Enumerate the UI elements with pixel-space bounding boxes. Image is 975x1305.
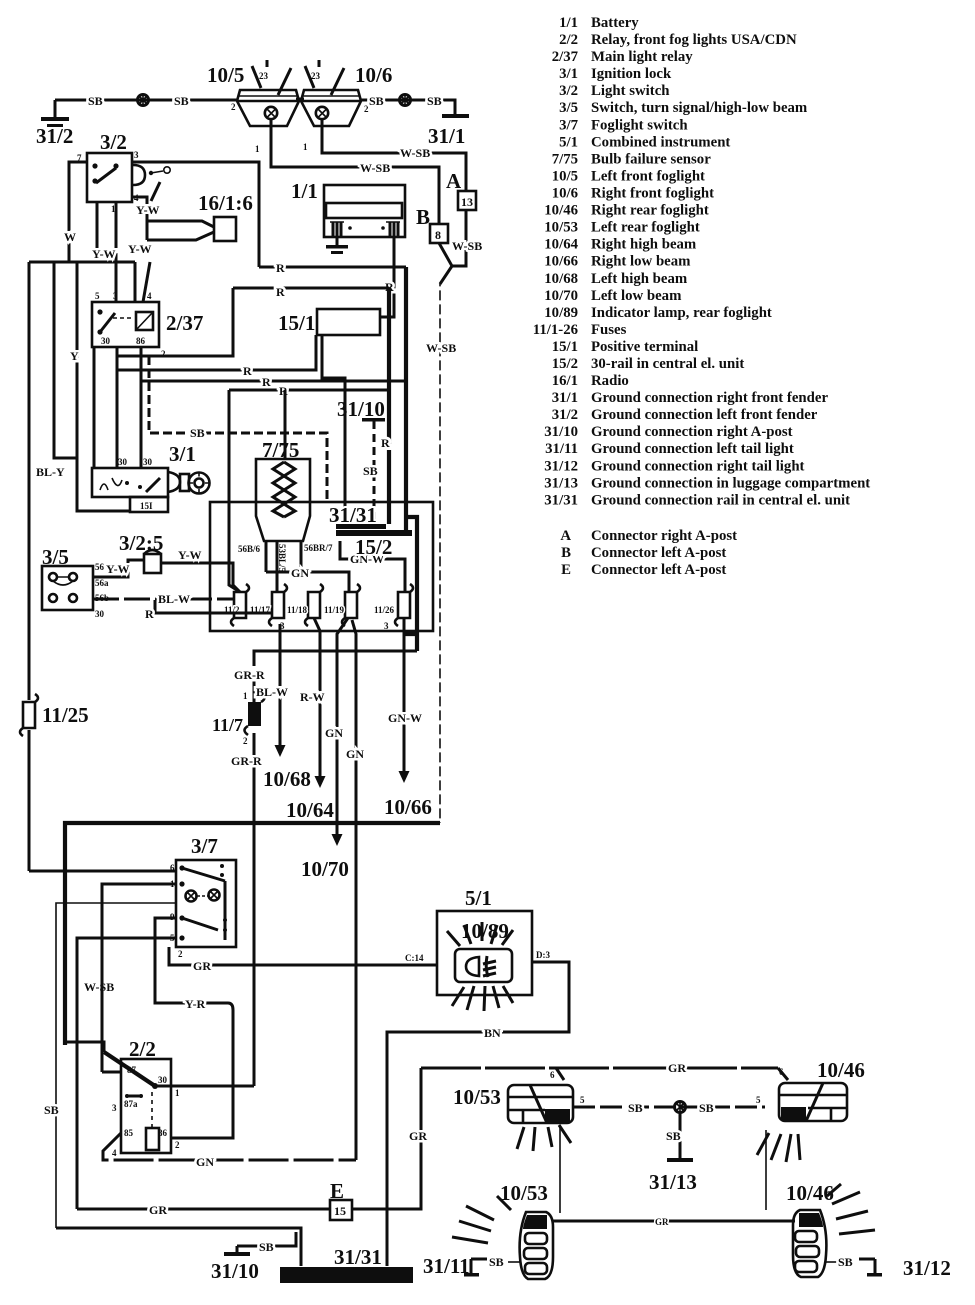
svg-text:Foglight switch: Foglight switch [591, 117, 688, 133]
svg-text:GN: GN [196, 1155, 214, 1169]
svg-text:10/46: 10/46 [817, 1058, 865, 1082]
svg-text:10/53: 10/53 [544, 220, 578, 236]
wire W-SB right vertical [426, 266, 456, 823]
svg-text:1/1: 1/1 [291, 179, 318, 203]
wire link 10/53 to side view [559, 1125, 561, 1213]
wire BL-W arrow 10/68 [256, 624, 311, 791]
svg-text:30: 30 [118, 457, 128, 467]
ground 31/1 [428, 114, 469, 148]
ground 31/13 [649, 1113, 697, 1194]
svg-text:30: 30 [101, 336, 111, 346]
svg-text:SB: SB [628, 1101, 643, 1115]
wire R line y370 [117, 335, 316, 378]
svg-text:31/31: 31/31 [544, 492, 578, 508]
svg-text:3/2: 3/2 [559, 83, 578, 99]
svg-text:5: 5 [756, 1095, 761, 1105]
svg-text:Ignition lock: Ignition lock [591, 66, 672, 82]
svg-text:3/2: 3/2 [100, 130, 127, 154]
svg-text:31/31: 31/31 [334, 1245, 382, 1269]
svg-text:GN: GN [346, 747, 364, 761]
svg-text:W-SB: W-SB [360, 161, 390, 175]
svg-text:31/13: 31/13 [649, 1170, 697, 1194]
svg-text:3: 3 [384, 621, 389, 631]
fuse 11/26 [374, 584, 413, 626]
svg-text:11/19: 11/19 [324, 605, 345, 615]
wire SB dashed y433 [149, 356, 327, 502]
svg-text:10/70: 10/70 [544, 288, 578, 304]
wire D:3 BN [387, 950, 569, 1266]
wire SB dashed to rail [363, 421, 378, 524]
wire 15/1 down to rail [322, 335, 345, 524]
svg-text:31/1: 31/1 [552, 390, 578, 406]
svg-text:GR: GR [668, 1061, 686, 1075]
svg-text:11/18: 11/18 [287, 605, 308, 615]
svg-text:30: 30 [95, 609, 105, 619]
svg-text:GR: GR [655, 1217, 669, 1227]
wire 10/6 pin1 W-SB [322, 119, 466, 191]
wire R line y288 [233, 285, 389, 299]
svg-text:2: 2 [231, 102, 236, 112]
svg-text:11/26: 11/26 [374, 605, 395, 615]
svg-text:W-SB: W-SB [426, 341, 456, 355]
svg-text:2/37: 2/37 [166, 311, 203, 335]
svg-text:5: 5 [580, 1095, 585, 1105]
svg-text:30: 30 [158, 1075, 168, 1085]
svg-text:31/1: 31/1 [428, 124, 465, 148]
ground 31/10 upper [337, 397, 385, 422]
svg-text:10/64: 10/64 [544, 237, 578, 253]
svg-text:Main light relay: Main light relay [591, 49, 693, 65]
svg-text:2: 2 [243, 736, 248, 746]
svg-text:SB: SB [427, 94, 442, 108]
svg-text:3: 3 [112, 1103, 117, 1113]
wire 7/75 pin 56BR/7 [301, 541, 333, 572]
svg-text:Fuses: Fuses [591, 322, 627, 338]
svg-text:Ground connection rail in cent: Ground connection rail in central el. un… [591, 492, 850, 508]
svg-text:10/6: 10/6 [355, 63, 392, 87]
svg-text:10/6: 10/6 [552, 186, 578, 202]
svg-text:Y: Y [70, 349, 79, 363]
wire 7/75 pin 53BL/5 [277, 541, 287, 592]
tail light 10/53 side view [452, 1181, 553, 1279]
svg-text:16/1: 16/1 [552, 373, 578, 389]
svg-text:31/12: 31/12 [544, 458, 578, 474]
svg-text:R: R [381, 436, 390, 450]
ground 31/12 [826, 1255, 951, 1280]
svg-text:10/53: 10/53 [500, 1181, 548, 1205]
wire SB left to bus [56, 1228, 301, 1266]
wire diagonal into 2/37 [143, 262, 150, 302]
splice connector [400, 94, 411, 106]
svg-text:10/66: 10/66 [544, 254, 578, 270]
svg-text:10/68: 10/68 [263, 767, 311, 791]
svg-text:13: 13 [461, 195, 473, 209]
svg-text:Left low beam: Left low beam [591, 288, 682, 304]
wire 2/37 pin86 down to 3/1 [140, 347, 143, 468]
fuse 11/7 [212, 691, 265, 746]
svg-text:Bulb failure sensor: Bulb failure sensor [591, 151, 711, 167]
svg-text:5/1: 5/1 [465, 886, 492, 910]
svg-text:15/2: 15/2 [552, 356, 578, 372]
foglight 10/6 [301, 60, 392, 152]
wire SB between tail lights [573, 1095, 765, 1115]
svg-text:Ground connection right A-post: Ground connection right A-post [591, 424, 793, 440]
svg-text:Left rear foglight: Left rear foglight [591, 220, 700, 236]
wire 2/37 left down to 3/1 [93, 347, 96, 468]
wire W-SB into 2/2 [65, 1042, 104, 1052]
svg-text:A: A [560, 528, 571, 544]
ground 31/11 [423, 1254, 520, 1278]
svg-text:SB: SB [174, 94, 189, 108]
svg-text:Connector right A-post: Connector right A-post [591, 528, 737, 544]
ground rail 31/31 [329, 503, 412, 559]
ground rail 31/31 bus bar [280, 1245, 413, 1283]
svg-text:3: 3 [134, 150, 139, 160]
svg-text:15I: 15I [140, 501, 153, 511]
svg-text:23: 23 [259, 71, 269, 81]
svg-text:GR: GR [409, 1129, 427, 1143]
svg-text:56a: 56a [95, 578, 109, 588]
svg-text:E: E [561, 562, 571, 578]
svg-text:16/1:6: 16/1:6 [198, 191, 253, 215]
legend list [533, 15, 871, 578]
wire to radio lower [147, 232, 214, 240]
wire 2/2 pin85 GN [103, 1133, 356, 1169]
svg-text:Left front foglight: Left front foglight [591, 169, 705, 185]
wire Y-W to 2/37 pin4 [134, 262, 137, 302]
svg-text:15/2: 15/2 [355, 535, 392, 559]
svg-text:GR: GR [193, 959, 211, 973]
radio connector 16/1:6 [198, 191, 253, 241]
splice connector [138, 94, 149, 106]
svg-text:56BR/7: 56BR/7 [304, 543, 333, 553]
svg-text:R-W: R-W [300, 690, 325, 704]
switch 3/5 [42, 545, 109, 619]
svg-text:56: 56 [95, 562, 105, 572]
svg-text:SB: SB [369, 94, 384, 108]
connector E [330, 1179, 352, 1220]
svg-text:15: 15 [334, 1204, 346, 1218]
wire 3/7 pin1 to 2/2 [102, 884, 176, 1072]
svg-text:5: 5 [95, 291, 100, 301]
svg-text:11/1-26: 11/1-26 [533, 322, 578, 338]
svg-text:10/5: 10/5 [552, 169, 578, 185]
svg-text:1: 1 [303, 142, 308, 152]
svg-text:R: R [145, 607, 154, 621]
wire battery plus R [380, 237, 394, 317]
fuse 11/18 [287, 584, 323, 626]
wire SB to ground 31/1 [360, 94, 455, 115]
svg-text:1: 1 [175, 1088, 180, 1098]
svg-text:85: 85 [124, 1128, 134, 1138]
svg-text:Y-R: Y-R [185, 997, 206, 1011]
svg-text:1/1: 1/1 [559, 15, 578, 31]
wire GR upper tail line [421, 1061, 788, 1080]
fuse 11/17 [250, 584, 287, 626]
svg-text:B: B [416, 205, 430, 229]
svg-text:8: 8 [435, 228, 441, 242]
svg-text:Ground connection left front f: Ground connection left front fender [591, 407, 818, 423]
wire SB to left foglight [55, 94, 238, 108]
svg-text:Y-W: Y-W [178, 548, 202, 562]
svg-text:BN: BN [484, 1026, 501, 1040]
connector B [416, 205, 448, 243]
svg-text:Positive terminal: Positive terminal [591, 339, 698, 355]
wire 3/7 pin5 GR [77, 938, 176, 1209]
svg-text:31/10: 31/10 [544, 424, 578, 440]
fuse 11/19 [324, 584, 360, 626]
svg-text:31/2: 31/2 [36, 124, 73, 148]
svg-text:10/68: 10/68 [544, 271, 578, 287]
wire 3/2 pin1b to relay [115, 202, 118, 302]
svg-text:Y-W: Y-W [106, 562, 130, 576]
tail light 10/46 side view [786, 1181, 875, 1277]
svg-text:Combined instrument: Combined instrument [591, 134, 730, 150]
bulb failure sensor 7/75 [256, 438, 310, 541]
wire R vertical x389 [381, 288, 390, 524]
svg-text:3/7: 3/7 [559, 117, 579, 133]
wire 2/37 pin2 [118, 288, 233, 356]
wire Y-W right of 3/2:5 [161, 548, 240, 592]
svg-text:GN: GN [325, 726, 343, 740]
wire R line y381 [141, 375, 406, 389]
svg-text:D:3: D:3 [536, 950, 550, 960]
svg-text:15/1: 15/1 [278, 311, 315, 335]
svg-text:53BL/5: 53BL/5 [277, 544, 287, 573]
battery 1/1 [291, 179, 405, 237]
svg-text:31/31: 31/31 [329, 503, 377, 527]
svg-text:56B/6: 56B/6 [238, 544, 261, 554]
wire 2/2 pin30 to GR-R vertical [155, 1085, 254, 1088]
svg-text:31/13: 31/13 [544, 475, 578, 491]
svg-text:Right high beam: Right high beam [591, 237, 697, 253]
svg-text:Ground connection in luggage c: Ground connection in luggage compartment [591, 475, 870, 491]
svg-text:SB: SB [88, 94, 103, 108]
svg-text:10/5: 10/5 [207, 63, 244, 87]
ground 31/10 lower [211, 1232, 296, 1283]
svg-text:SB: SB [44, 1103, 59, 1117]
svg-text:SB: SB [666, 1129, 681, 1143]
wire 7/75 top feed [284, 390, 287, 459]
svg-text:11/7: 11/7 [212, 715, 243, 735]
svg-text:SB: SB [489, 1255, 504, 1269]
svg-text:3/5: 3/5 [559, 100, 578, 116]
wire GR from E to tail lights [352, 1068, 421, 1209]
svg-text:31/10: 31/10 [337, 397, 385, 421]
svg-text:4: 4 [147, 291, 152, 301]
svg-text:31/11: 31/11 [423, 1254, 470, 1278]
svg-text:GR-R: GR-R [234, 668, 265, 682]
svg-text:GR-R: GR-R [231, 754, 262, 768]
svg-text:87a: 87a [124, 1099, 138, 1109]
tail light 10/53 rear view [453, 1085, 573, 1151]
svg-text:SB: SB [259, 1240, 274, 1254]
svg-text:GR: GR [149, 1203, 167, 1217]
svg-text:GN: GN [291, 566, 309, 580]
combined instrument 5/1 [437, 886, 532, 1011]
svg-text:SB: SB [699, 1101, 714, 1115]
wire below connector B [439, 243, 452, 284]
wire GR lower tail line [553, 1217, 795, 1227]
splice connector [675, 1101, 686, 1113]
svg-text:3/1: 3/1 [559, 66, 578, 82]
svg-text:2/2: 2/2 [559, 32, 578, 48]
svg-text:5/1: 5/1 [559, 134, 578, 150]
wire BL-W from 3/5 [93, 592, 234, 606]
wire link 10/46 to side view [765, 1130, 767, 1210]
wire GR-R fuse 11/2 down [234, 651, 417, 703]
svg-text:SB: SB [190, 426, 205, 440]
wire R to fuse 11/17 [145, 600, 272, 621]
svg-text:2: 2 [175, 1140, 180, 1150]
svg-text:6: 6 [550, 1070, 555, 1080]
svg-text:3/1: 3/1 [169, 442, 196, 466]
svg-text:Ground connection left tail li: Ground connection left tail light [591, 441, 794, 457]
svg-text:Indicator lamp, rear foglight: Indicator lamp, rear foglight [591, 305, 772, 321]
svg-text:W-SB: W-SB [452, 239, 482, 253]
tail light 10/46 rear view [757, 1058, 865, 1162]
svg-text:3: 3 [113, 291, 118, 301]
wire 7/75 pin 56B/6 [238, 541, 266, 572]
fuse 11/2 top feed [229, 390, 240, 592]
relay 2/2 [104, 1037, 180, 1158]
wire rail to fuse drop [404, 517, 417, 651]
fuse 11/25 [20, 694, 89, 736]
svg-text:Y-W: Y-W [136, 203, 160, 217]
svg-text:Ground connection right front: Ground connection right front fender [591, 390, 828, 406]
svg-text:2/2: 2/2 [129, 1037, 156, 1061]
svg-text:Relay, front fog lights USA/CD: Relay, front fog lights USA/CDN [591, 32, 797, 48]
wire R vertical x406 [404, 267, 408, 531]
light switch 3/2 [77, 130, 170, 214]
positive terminal 15/1 [278, 309, 380, 335]
wire GN horizontal [266, 566, 349, 592]
svg-text:7/75: 7/75 [552, 151, 578, 167]
svg-text:31/12: 31/12 [903, 1256, 951, 1280]
svg-text:Y-W: Y-W [92, 247, 116, 261]
wire Y left vertical [70, 262, 130, 511]
svg-text:30: 30 [143, 457, 153, 467]
central electrical unit box [210, 502, 433, 631]
svg-text:10/70: 10/70 [301, 857, 349, 881]
svg-text:W: W [64, 230, 76, 244]
wire 3/2 pin7 W [69, 162, 87, 262]
wire GN long vertical [346, 620, 364, 1160]
wire 11/25 to 3/7 [29, 870, 176, 873]
wire left main vertical [28, 262, 31, 871]
svg-text:10/89: 10/89 [544, 305, 578, 321]
svg-text:W-SB: W-SB [84, 980, 114, 994]
wire GN arrow 10/70 [301, 618, 349, 881]
wire GR-R fuse 11/7 down to relay 2/2 [231, 733, 262, 1086]
connector A [446, 169, 476, 210]
svg-text:BL-W: BL-W [256, 685, 288, 699]
wire Y-W horizontal [29, 247, 135, 262]
svg-text:Light switch: Light switch [591, 83, 670, 99]
wire R line y390 [229, 384, 389, 398]
svg-text:10/66: 10/66 [384, 795, 432, 819]
svg-text:2/37: 2/37 [552, 49, 579, 65]
svg-text:2: 2 [178, 949, 183, 959]
wire R line y267 [259, 261, 406, 275]
wire W-SB thick horizontal y823 [65, 823, 440, 1045]
svg-text:86: 86 [136, 336, 146, 346]
wire Y-W 3/5 to 3/2:5 [93, 560, 144, 577]
svg-text:1: 1 [255, 144, 260, 154]
svg-text:Battery: Battery [591, 15, 639, 31]
wire BL-Y [36, 262, 77, 479]
svg-text:Radio: Radio [591, 373, 629, 389]
svg-text:1: 1 [243, 691, 248, 701]
svg-text:Connector left A-post: Connector left A-post [591, 545, 726, 561]
svg-text:31/11: 31/11 [545, 441, 578, 457]
svg-text:15/1: 15/1 [552, 339, 578, 355]
wire 3/2 pin1 [96, 202, 99, 262]
wire below connector A [452, 210, 466, 266]
svg-text:Y-W: Y-W [128, 242, 152, 256]
main light relay 2/37 [92, 291, 203, 359]
svg-text:GN-W: GN-W [388, 711, 422, 725]
svg-text:Ground connection right tail l: Ground connection right tail light [591, 458, 805, 474]
svg-text:10/46: 10/46 [544, 203, 578, 219]
svg-text:R: R [262, 375, 271, 389]
svg-text:R: R [276, 285, 285, 299]
wire GN-W arrow 10/66 [384, 618, 432, 819]
wire 3/2 pin3 R feed [132, 162, 259, 267]
svg-text:C:14: C:14 [405, 953, 424, 963]
foglight 10/5 [207, 60, 299, 154]
svg-text:Left high beam: Left high beam [591, 271, 688, 287]
svg-text:SB: SB [363, 464, 378, 478]
svg-text:10/53: 10/53 [453, 1085, 501, 1109]
wire 3/7 bottom pin GR to instrument [169, 947, 437, 973]
svg-text:A: A [446, 169, 462, 193]
svg-text:R: R [276, 261, 285, 275]
svg-text:B: B [561, 545, 571, 561]
svg-text:Connector left A-post: Connector left A-post [591, 562, 726, 578]
wire 10/5 pin1 W-SB [271, 119, 439, 224]
svg-text:Right rear foglight: Right rear foglight [591, 203, 709, 219]
svg-text:R: R [243, 364, 252, 378]
svg-text:BL-Y: BL-Y [36, 465, 65, 479]
svg-text:10/64: 10/64 [286, 798, 334, 822]
ground under battery [326, 237, 348, 254]
connector 3/2:5 [119, 531, 163, 573]
svg-text:31/10: 31/10 [211, 1259, 259, 1283]
wire 3/2 pin4 Y-W [128, 197, 160, 256]
svg-text:3/7: 3/7 [191, 834, 218, 858]
svg-text:Right low beam: Right low beam [591, 254, 691, 270]
wire GN-W horizontal [340, 541, 405, 592]
wire GR to connector E [77, 1203, 330, 1217]
svg-text:Switch, turn signal/high-low b: Switch, turn signal/high-low beam [591, 100, 808, 116]
svg-text:SB: SB [838, 1255, 853, 1269]
svg-text:BL-W: BL-W [158, 592, 190, 606]
svg-text:31/2: 31/2 [552, 407, 578, 423]
svg-text:W-SB: W-SB [400, 146, 430, 160]
wire to radio upper [147, 221, 214, 227]
wire link between foglights [296, 98, 304, 101]
svg-text:23: 23 [311, 71, 321, 81]
ground 31/2 [36, 100, 73, 148]
svg-text:30-rail in central el. unit: 30-rail in central el. unit [591, 356, 744, 372]
svg-text:4: 4 [112, 1148, 117, 1158]
wire 3/7 pin9 Y-R [155, 918, 233, 1138]
svg-text:11/25: 11/25 [42, 703, 89, 727]
wire 3/7 SB pin [56, 903, 176, 1228]
svg-text:6: 6 [779, 1067, 784, 1077]
svg-text:Right front foglight: Right front foglight [591, 186, 714, 202]
